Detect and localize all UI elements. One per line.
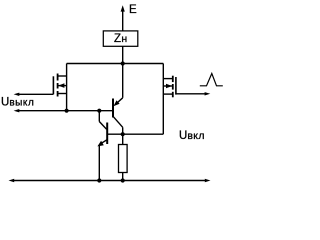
- svg-text:Uвкл: Uвкл: [179, 130, 205, 142]
- node dot emitter rail: [97, 178, 101, 182]
- node dot NPN base tap: [97, 109, 101, 113]
- wire main vertical to VT1 emitter: [122, 64, 124, 98]
- transistor VT2 (NPN): [97, 111, 107, 147]
- wire collector bus: [107, 133, 163, 135]
- arrowhead base bus: [14, 109, 20, 112]
- top rail wire: [67, 63, 164, 65]
- transistor VT1 (PNP): [113, 98, 123, 134]
- wire gate lead right: [176, 93, 205, 95]
- wire base bus: [19, 110, 113, 112]
- svg-text:E: E: [129, 4, 137, 16]
- arrowhead Uвыкл gate: [14, 93, 20, 96]
- arrowhead gate input: [205, 92, 211, 95]
- transistor VT4 (right MOSFET): [163, 76, 176, 98]
- transistor VT3 (left MOSFET): [53, 74, 66, 97]
- svg-text:Zн: Zн: [114, 33, 127, 45]
- common rail wire: [14, 180, 205, 182]
- node dot resistor rail: [121, 178, 125, 182]
- pulse waveform icon: [200, 74, 223, 86]
- node dot output: [121, 132, 125, 136]
- wire right branch vertical: [162, 64, 164, 135]
- wire resistor to rail: [122, 173, 124, 181]
- load box Zн: [103, 31, 138, 46]
- wire left branch vertical: [66, 64, 68, 111]
- wire NPN emitter down: [98, 145, 100, 180]
- junction dot top rail: [121, 61, 125, 65]
- resistor R1: [119, 145, 128, 173]
- supply arrow E: [121, 5, 125, 31]
- svg-text:Uвыкл: Uвыкл: [1, 97, 34, 109]
- arrowhead rail right: [205, 179, 211, 182]
- arrowhead rail left: [9, 179, 15, 182]
- node dot left MOSFET source: [65, 109, 69, 113]
- wire gate lead left: [19, 93, 53, 95]
- wire Zн to top rail: [122, 46, 124, 63]
- wire output to resistor: [122, 134, 124, 144]
